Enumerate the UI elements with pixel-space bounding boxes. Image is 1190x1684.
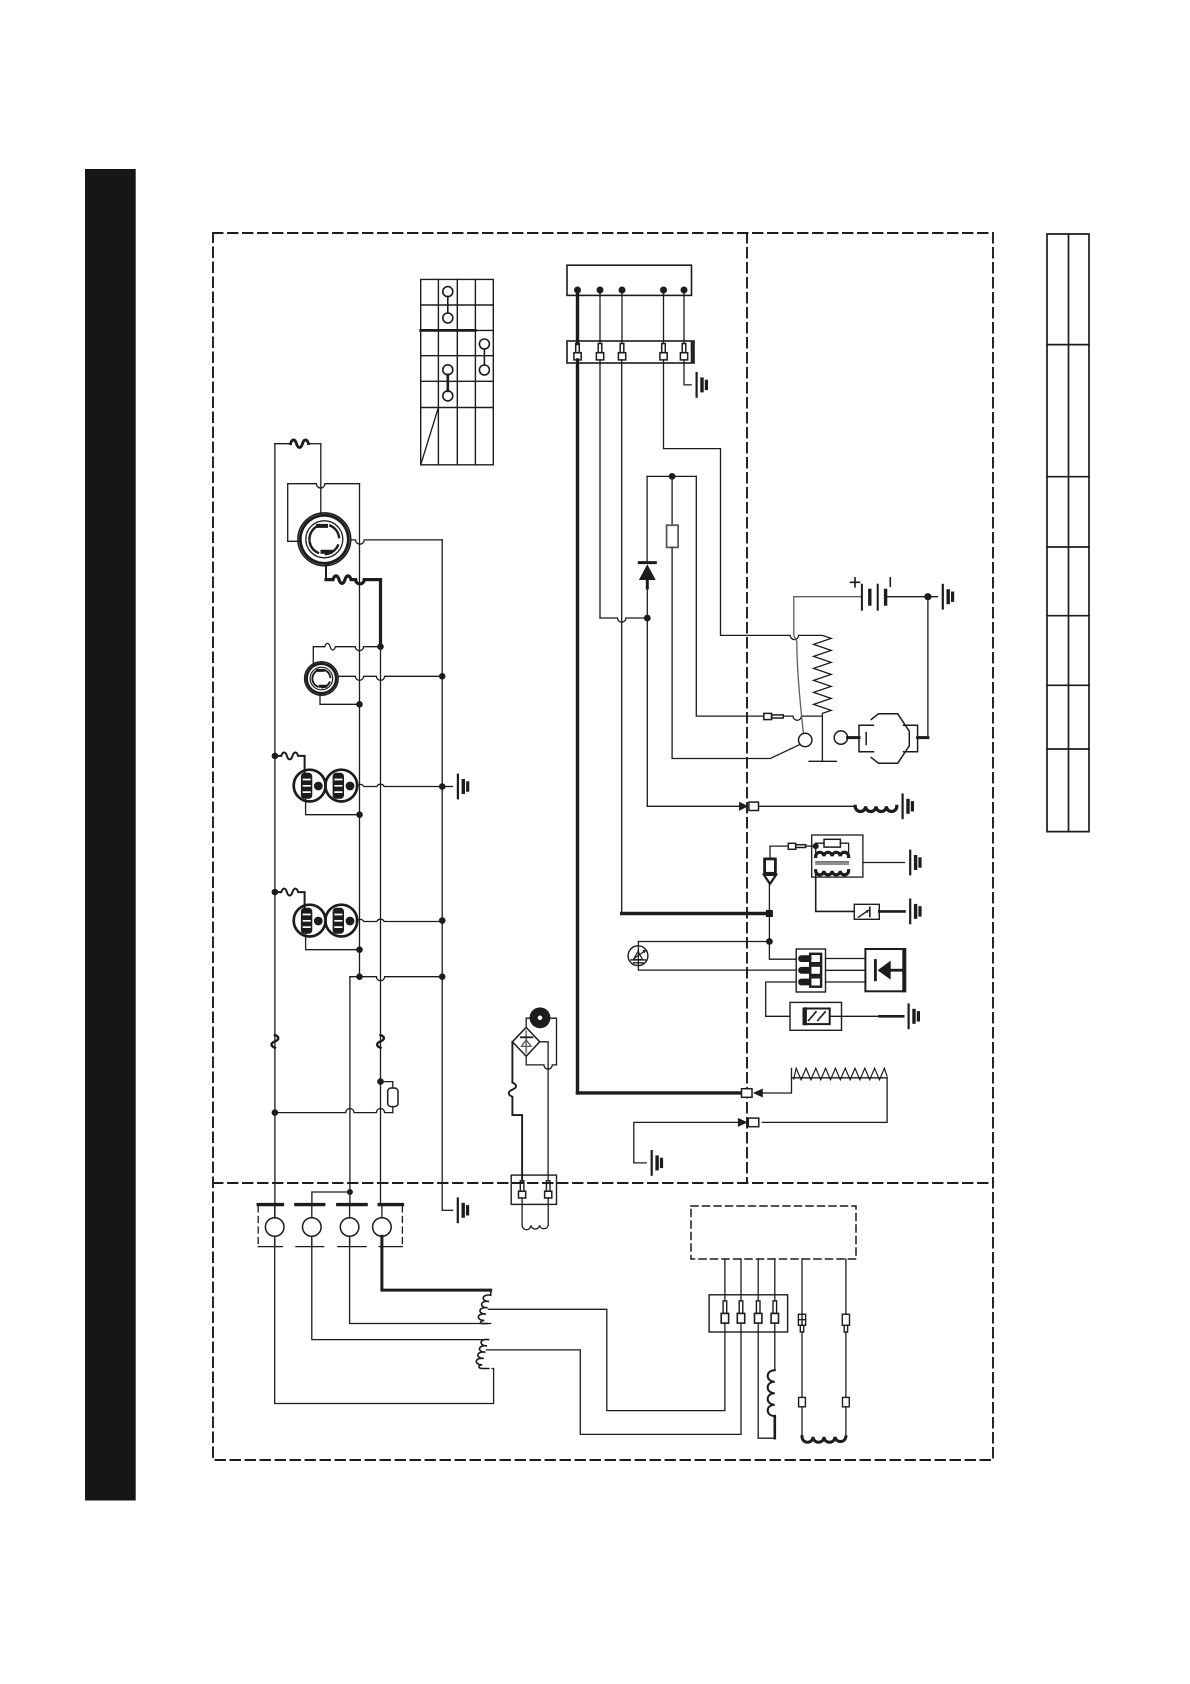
wire leg B up [845, 1407, 847, 1437]
wire motor positive riser [927, 597, 929, 738]
junction pickup top [766, 938, 773, 945]
wire plug cap riser [769, 884, 796, 959]
plug cap resistor [764, 859, 776, 884]
wire socket2 right (hops) to ground bus [338, 676, 442, 680]
wire pin4 feed [664, 290, 721, 635]
dashed divider vertical [746, 233, 748, 1183]
junction diode/pin2 [644, 615, 651, 622]
junction battery/motor [924, 593, 931, 600]
breaker3 [340, 1218, 359, 1237]
rectifier unit [865, 949, 905, 991]
wire CDI low leg [766, 982, 797, 1016]
lamp diode symbol [521, 1031, 533, 1053]
breaker dashed housing [258, 1206, 402, 1247]
wire coil1 bottom to breaker3 [350, 1236, 491, 1323]
switch table contact circles col2 rows4-5 [443, 365, 453, 401]
wire leg B middle [845, 1332, 847, 1397]
wire distribution header [647, 475, 696, 477]
wire pin2 feed [599, 290, 601, 618]
wire ground tee [442, 786, 452, 788]
junction hot/duplex2 [272, 889, 279, 896]
bullet connector (switch line) [764, 713, 784, 719]
battery [851, 578, 891, 610]
wire header right leg to switch line [696, 476, 764, 716]
wire battery to ground [886, 596, 938, 598]
ground (battery) [943, 585, 953, 609]
junction CDI feed [766, 910, 773, 917]
wire ballast return to hot bus (hops) [275, 1109, 393, 1113]
heater element (zigzag) [794, 1068, 887, 1079]
starter switch contact B [834, 731, 847, 744]
ground (regulator) [909, 1005, 919, 1029]
breaker1 [265, 1218, 284, 1237]
CDI connector (3 pin) [796, 949, 825, 992]
wire tap1 (coil1 mid) [489, 1309, 725, 1410]
wire bullet to coil [806, 845, 816, 847]
receptacle socket2 (twist-lock small) [305, 662, 339, 696]
junction hot/ballast return [272, 1109, 279, 1116]
wire bottom ground tail [442, 1209, 452, 1211]
wire switch line to resistor (hop at blade) [783, 716, 822, 720]
wire pin1 feed (heavy) [576, 290, 579, 1093]
switch position table [421, 279, 494, 464]
wire motor to battery stub [918, 736, 928, 739]
wire leg A down [801, 1332, 803, 1397]
wire socket1 bottom heavy with slack to feeder [325, 566, 327, 580]
terminal (leg A) [798, 1314, 805, 1332]
battery lead (switch feed) [794, 596, 862, 598]
breaker2 [303, 1218, 322, 1237]
junction neutral/tie [356, 973, 363, 980]
ground (panel) [458, 1199, 468, 1223]
inline connector (leg B) [843, 1397, 850, 1406]
wire socket1 left lead [288, 484, 299, 542]
breaker4 [373, 1218, 392, 1237]
junction feeder/socket2 [377, 643, 384, 650]
spark plug [854, 904, 879, 919]
fuse F1 [667, 525, 679, 547]
wire pickup loop bottom [638, 942, 796, 971]
receptacle socket1 (twist-lock) [298, 513, 351, 566]
coil2 (primary) [476, 1339, 489, 1368]
wire breaker3 drop [349, 977, 351, 1205]
wire spark plug to ground [879, 910, 904, 913]
switch table diagonal [421, 408, 439, 465]
wire regulator to ground [830, 1015, 880, 1017]
junction socket2/ground bus [439, 673, 446, 680]
wire heater return [762, 1078, 887, 1123]
wire socket1 loop box (top edge with hop) [288, 484, 360, 488]
wire bullet to heater [763, 1068, 792, 1093]
bullet pair (kill line) [739, 802, 758, 811]
wire leg A to lamp coil [801, 1407, 803, 1437]
junction breaker branch [347, 1189, 353, 1195]
dashed divider (engine/generator section) [213, 1182, 993, 1184]
connector strip pins [574, 344, 688, 360]
wire lamp coil loop [522, 1198, 548, 1230]
wire feeder heavy vertical segment [379, 580, 382, 647]
wire heater feed heavy [578, 1091, 742, 1094]
wire duplex2 right to ground bus (up hops) [356, 919, 442, 921]
wire pin2 tap to diode (sag at pin3) [600, 618, 647, 622]
bullet connector (coil primary) [788, 843, 805, 849]
junction duplex2/ground bus [439, 917, 446, 924]
lamp connector (2 pin) [511, 1175, 556, 1204]
wire lamp left lead [526, 1018, 532, 1027]
wire breaker2 to coil2 [312, 1236, 489, 1339]
wire hot bus left vertical [274, 444, 276, 1218]
wire lighting leg A [801, 1259, 803, 1314]
wire coil secondary to spark plug [816, 871, 855, 912]
resistor (ballast) on feeder [388, 1088, 398, 1107]
legend table (right margin) [1047, 234, 1089, 832]
starter motor [859, 714, 918, 764]
wire kill line to choke coil [647, 805, 739, 807]
wire diamond left to pin1 (slack) [509, 1042, 522, 1181]
breaker contact bars (top) [258, 1203, 402, 1206]
ground (outlet bus) [458, 775, 468, 799]
wire neutral bus vertical [359, 484, 361, 977]
starter resistor (zigzag) [721, 635, 837, 761]
wire socket1 top lead [320, 444, 322, 514]
outer dashed enclosure box [213, 233, 993, 1460]
wire pickup loop top [638, 941, 769, 943]
terminal block (top) [567, 265, 692, 295]
junction duplex2/neutral [356, 946, 363, 953]
wire breaker2 branch [312, 1192, 350, 1205]
wire lamp right lead [548, 1018, 556, 1065]
wire duplex1 bottom to neutral [306, 798, 360, 815]
pilot lamp [531, 1009, 549, 1027]
choke coil [855, 806, 897, 811]
wires generator leads [725, 1259, 775, 1301]
wire diode leg [646, 476, 648, 561]
wire heater return to ground [634, 1122, 738, 1163]
junction feeder/ballast [377, 1078, 384, 1085]
ground (choke) [903, 795, 913, 819]
wire coil case to ground [863, 862, 905, 864]
wire socket1 right to ground bus (hop at neutral) [351, 540, 442, 544]
switch table contact circles col4 rows3-4 [479, 339, 489, 375]
switch table thick row line [421, 329, 476, 332]
wire ground bus vertical [441, 540, 443, 1210]
junction duplex1/ground bus [439, 783, 446, 790]
wire breaker stubs [275, 1205, 382, 1218]
junction hot/duplex1 [272, 753, 279, 760]
ground (spark plug) [910, 900, 920, 924]
wire duplex2 left lead (slack) [275, 889, 305, 909]
wire feeder thin continuation [380, 647, 382, 1205]
wire tap2 (coil2 mid) [487, 1323, 742, 1434]
wire motor stub [848, 736, 859, 739]
receptacle duplex2 (outlet pair) [294, 905, 357, 937]
wire fuse to switch contact [672, 547, 800, 758]
generator connector (4 pin) [709, 1295, 788, 1332]
terminal dots [574, 287, 688, 294]
regulator unit [790, 1002, 842, 1030]
wire socket2 bottom to neutral [320, 694, 360, 704]
ground (heater) [652, 1151, 662, 1175]
wire hot feed top (with slack loop) [275, 443, 291, 445]
wire duplex1 right to ground bus (up hops) [356, 784, 442, 786]
wire pin5 to ground [684, 290, 691, 385]
wire coil2 bottom to breaker1 [275, 1236, 494, 1403]
lamp diode housing (diamond) [512, 1027, 539, 1056]
wire socket2 top lead (slack + hop) [313, 643, 380, 664]
lighting coil (heavy) [802, 1437, 846, 1443]
wire ballast taps [381, 1082, 393, 1113]
terminal (leg B) [842, 1314, 849, 1332]
ignition coil assembly [812, 835, 863, 877]
connector strip box [567, 341, 692, 363]
generator dashed block [691, 1206, 856, 1259]
wire breaker4 to coil1 (heavy) [382, 1236, 491, 1290]
wire duplex1 left lead (slack) [275, 752, 305, 772]
bullet pair (heater return) [738, 1118, 759, 1127]
wire pin3 feed [621, 290, 623, 914]
ground (ignition coil) [910, 851, 920, 875]
diode (kill circuit) [639, 563, 656, 588]
wire slack marks on drops [272, 1035, 279, 1048]
wire diode anode down [646, 588, 648, 806]
junction tie/ground bus [439, 973, 446, 980]
junction socket2/neutral [356, 701, 363, 708]
inline connector (leg A) [799, 1397, 806, 1406]
wire fuse leg [671, 476, 673, 525]
junction header/fuse leg [669, 473, 676, 480]
junction coil input [813, 843, 819, 849]
pickup coil (exciter) [628, 946, 648, 966]
wire plug cap to coil (bullet) [770, 846, 788, 859]
wires CDI to rectifier [826, 959, 866, 983]
starter switch contact A [799, 733, 812, 746]
coil1 (primary) [478, 1290, 490, 1324]
wire diamond bottom tie (hop) [526, 1056, 556, 1069]
wire leg B top [845, 1259, 847, 1314]
wire main winding U [758, 1323, 775, 1438]
switch table contact circles col2 rows1-2 [443, 287, 453, 323]
wire neutral return cross tie [350, 977, 442, 981]
page sidebar black tab [85, 169, 136, 1501]
receptacle duplex1 (outlet pair) [294, 770, 357, 802]
wire main winding tail [773, 1416, 776, 1438]
ground (terminal strip) [697, 373, 707, 397]
wire heavy CDI feed [622, 912, 770, 915]
bullet pair (heater feed) [742, 1089, 763, 1098]
wire to choke [759, 805, 856, 807]
switch blade from battery (slack curve) [794, 597, 804, 733]
wire diamond right to pin2 [540, 1042, 548, 1181]
main winding coil [768, 1370, 775, 1416]
junction duplex1/neutral [356, 811, 363, 818]
wire duplex2 bottom to neutral [306, 933, 360, 950]
